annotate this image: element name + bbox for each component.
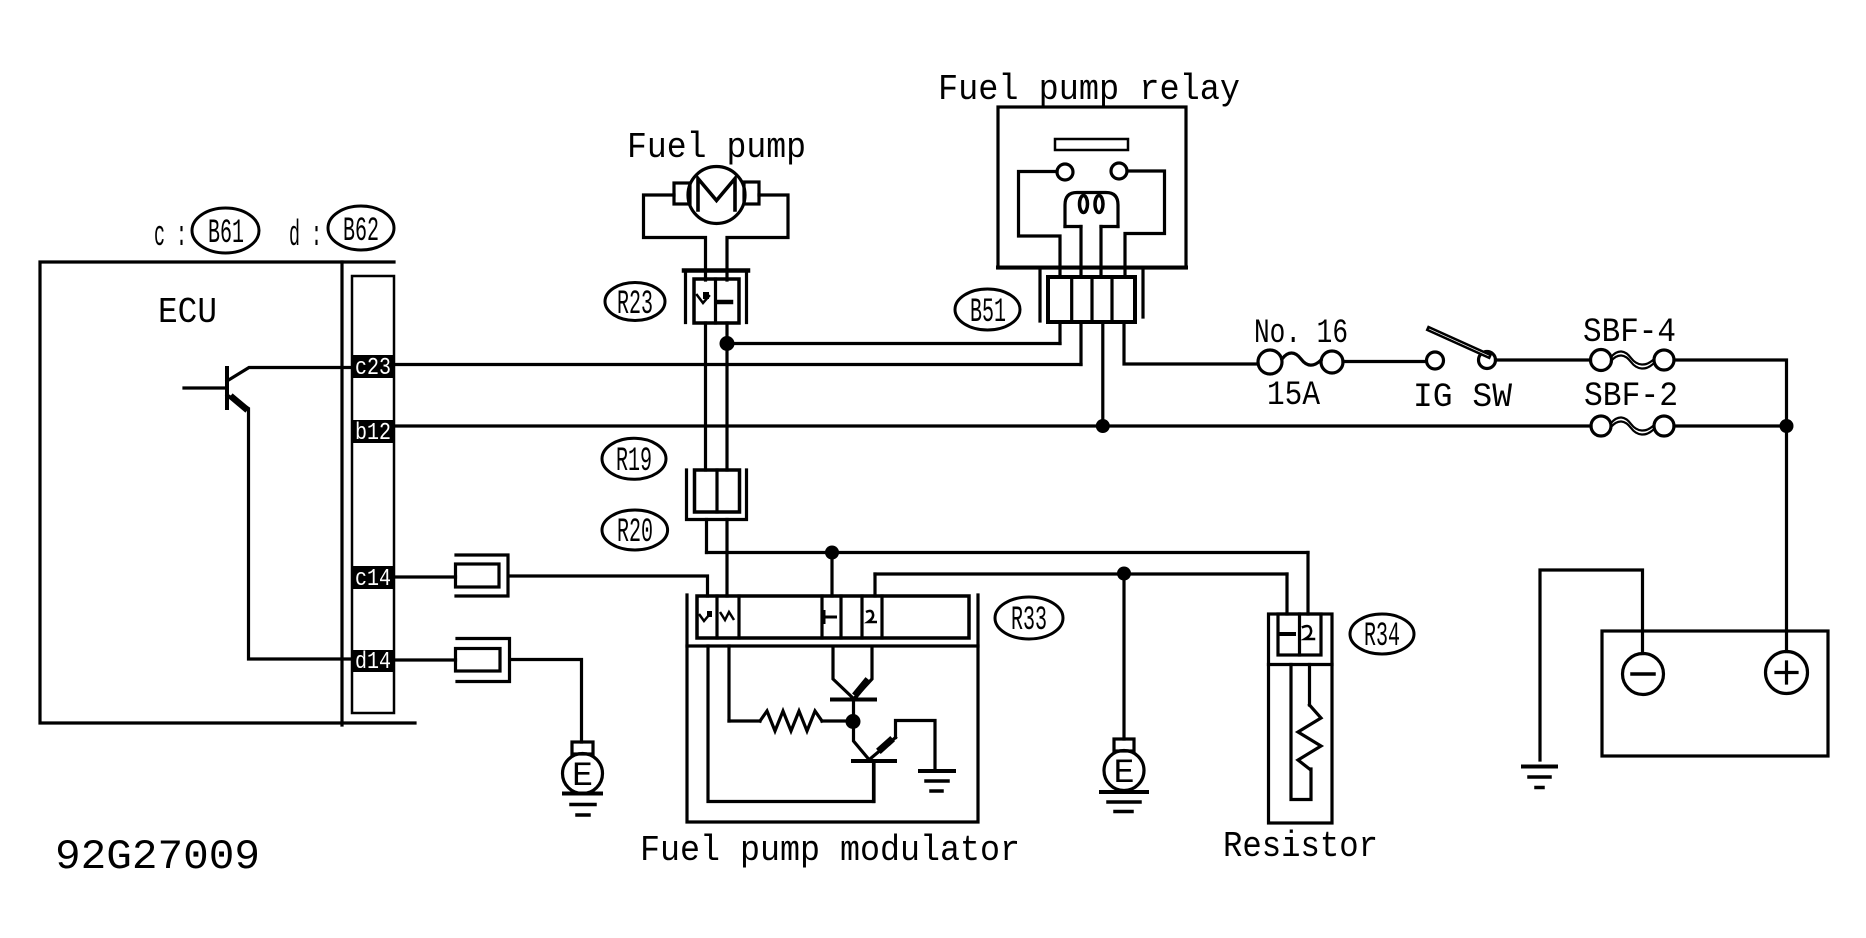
svg-text:R23: R23 — [617, 286, 653, 324]
svg-text:Fuel pump: Fuel pump — [627, 127, 806, 168]
svg-text:R34: R34 — [1364, 618, 1400, 656]
svg-text:15A: 15A — [1267, 377, 1321, 415]
svg-text:c23: c23 — [355, 355, 391, 382]
svg-text:E: E — [1114, 755, 1135, 793]
svg-text:IG SW: IG SW — [1413, 379, 1513, 417]
svg-text:d14: d14 — [355, 649, 391, 676]
svg-text:R33: R33 — [1011, 602, 1047, 640]
svg-text:SBF-4: SBF-4 — [1583, 314, 1676, 352]
svg-text:B51: B51 — [970, 294, 1006, 332]
svg-text:d :: d : — [289, 215, 322, 256]
svg-text:Resistor: Resistor — [1223, 826, 1378, 867]
svg-text:B62: B62 — [343, 213, 379, 251]
svg-text:Fuel pump modulator: Fuel pump modulator — [640, 830, 1020, 871]
svg-text:R20: R20 — [617, 514, 653, 552]
svg-text:c14: c14 — [355, 566, 391, 593]
svg-text:Fuel pump relay: Fuel pump relay — [938, 69, 1240, 110]
svg-text:B61: B61 — [208, 215, 244, 253]
svg-text:ECU: ECU — [158, 292, 217, 333]
svg-text:SBF-2: SBF-2 — [1584, 378, 1678, 416]
svg-text:c :: c : — [154, 215, 187, 256]
svg-text:No. 16: No. 16 — [1254, 315, 1348, 353]
svg-text:92G27009: 92G27009 — [55, 833, 260, 881]
svg-text:R19: R19 — [616, 443, 652, 481]
svg-text:b12: b12 — [355, 420, 391, 447]
svg-text:E: E — [572, 758, 593, 796]
